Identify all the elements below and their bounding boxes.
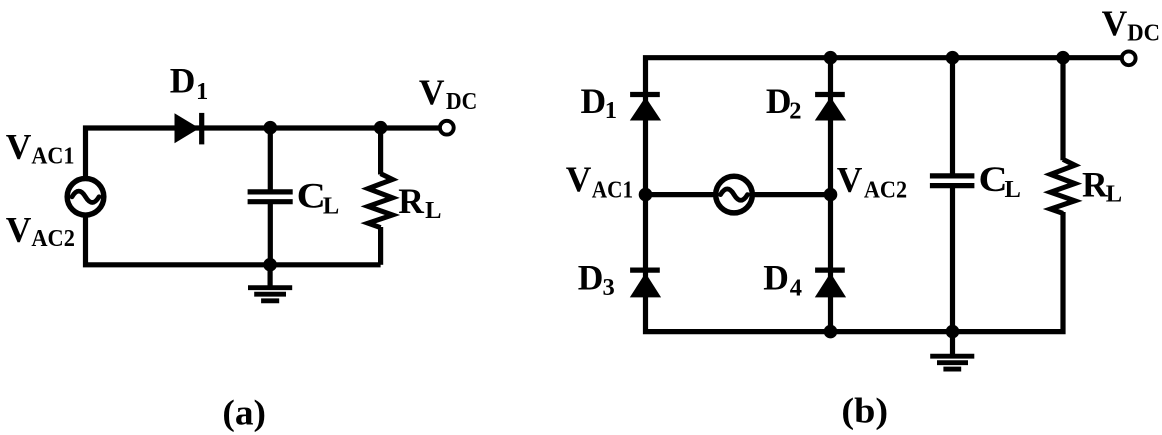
junction dot cap top (b) bbox=[946, 51, 960, 65]
svg-text:D: D bbox=[766, 81, 792, 121]
svg-text:(b): (b) bbox=[841, 391, 888, 431]
ground bar 2 (b) bbox=[937, 360, 968, 365]
svg-text:C: C bbox=[979, 159, 1008, 199]
svg-text:V: V bbox=[837, 160, 863, 200]
capacitor CL top lead (b) bbox=[950, 58, 955, 176]
ground bar 3 bbox=[261, 298, 279, 303]
ground bar 1 (b) bbox=[930, 354, 974, 359]
AC source sine wave (b) bbox=[721, 189, 748, 200]
svg-text:D: D bbox=[581, 81, 607, 121]
diode D3 triangle bbox=[630, 273, 661, 298]
diode D2 cathode bar bbox=[815, 92, 845, 97]
capacitor CL bottom lead bbox=[268, 202, 273, 265]
resistor RL top lead bbox=[378, 128, 383, 175]
junction dot resistor top bbox=[374, 121, 388, 135]
wire middle horizontal (source) bbox=[646, 192, 831, 197]
wire middle branch vertical (D2/D4) bbox=[828, 58, 833, 332]
svg-text:AC2: AC2 bbox=[864, 177, 907, 204]
svg-text:DC: DC bbox=[1127, 20, 1160, 47]
svg-text:R: R bbox=[1082, 165, 1108, 205]
svg-text:V: V bbox=[6, 209, 32, 249]
diode D1 triangle bbox=[630, 97, 661, 121]
junction dot node VAC2 bbox=[824, 188, 838, 202]
AC source sine wave bbox=[72, 191, 99, 202]
capacitor CL top lead bbox=[268, 128, 273, 192]
svg-text:L: L bbox=[425, 197, 441, 224]
diode D3 cathode bar bbox=[630, 268, 660, 273]
capacitor CL bottom plate (b) bbox=[930, 183, 975, 188]
svg-text:AC2: AC2 bbox=[31, 225, 75, 252]
diode D4 triangle bbox=[815, 273, 846, 298]
AC source circle (b) bbox=[716, 176, 753, 213]
ground bar 3 (b) bbox=[943, 367, 961, 372]
svg-text:V: V bbox=[419, 72, 445, 112]
diode D1 cathode bar bbox=[199, 113, 204, 144]
resistor RL top lead (b) bbox=[1060, 58, 1065, 161]
svg-text:2: 2 bbox=[789, 97, 801, 124]
resistor RL zigzag bbox=[368, 174, 392, 228]
junction dot ground bbox=[263, 258, 277, 272]
svg-text:DC: DC bbox=[446, 88, 477, 115]
svg-text:C: C bbox=[297, 176, 326, 216]
wire left loop: top wire, left vertical, bottom wire bbox=[86, 128, 439, 265]
svg-text:L: L bbox=[1005, 176, 1021, 203]
junction dot D2 branch top bbox=[824, 51, 838, 65]
junction dot D4 branch bottom bbox=[824, 325, 838, 339]
diode D1 cathode bar bbox=[630, 92, 660, 97]
svg-text:(a): (a) bbox=[222, 392, 266, 432]
terminal VDC open circle bbox=[440, 121, 454, 135]
terminal VDC open circle (b) bbox=[1122, 51, 1136, 65]
svg-text:V: V bbox=[6, 127, 32, 167]
diode D1 triangle bbox=[175, 113, 200, 143]
svg-text:1: 1 bbox=[196, 78, 208, 105]
wire main outline: top wire, left vertical, bottom wire, right riser bbox=[646, 58, 1123, 332]
svg-text:V: V bbox=[1102, 3, 1128, 43]
diode D4 cathode bar bbox=[815, 268, 845, 273]
junction dot cap top bbox=[264, 121, 278, 135]
capacitor CL top plate bbox=[248, 189, 293, 194]
ground bar 1 bbox=[248, 285, 292, 290]
svg-text:D: D bbox=[578, 258, 604, 298]
svg-text:1: 1 bbox=[605, 97, 617, 124]
svg-text:L: L bbox=[1106, 180, 1122, 207]
ground stem (b) bbox=[950, 332, 955, 357]
ground bar 2 bbox=[254, 292, 286, 297]
svg-text:V: V bbox=[566, 159, 592, 199]
junction dot resistor top (b) bbox=[1056, 51, 1070, 65]
diode D2 triangle bbox=[815, 97, 846, 121]
capacitor CL top plate (b) bbox=[930, 173, 975, 178]
capacitor CL bottom lead (b) bbox=[950, 186, 955, 332]
junction dot node VAC1 bbox=[639, 188, 653, 202]
capacitor CL bottom plate bbox=[248, 199, 293, 204]
AC source VAC1/VAC2 circle bbox=[67, 179, 104, 216]
svg-text:3: 3 bbox=[603, 274, 615, 301]
ground stem bbox=[268, 265, 273, 288]
svg-text:D: D bbox=[763, 258, 789, 298]
svg-text:R: R bbox=[398, 181, 424, 221]
svg-text:AC1: AC1 bbox=[592, 177, 633, 204]
junction dot ground (b) bbox=[946, 325, 960, 339]
resistor RL bottom lead bbox=[378, 227, 383, 265]
svg-text:4: 4 bbox=[790, 274, 802, 301]
resistor RL zigzag (b) bbox=[1051, 159, 1075, 213]
svg-text:AC1: AC1 bbox=[31, 143, 74, 170]
svg-text:D: D bbox=[170, 61, 196, 101]
svg-text:L: L bbox=[323, 193, 339, 220]
